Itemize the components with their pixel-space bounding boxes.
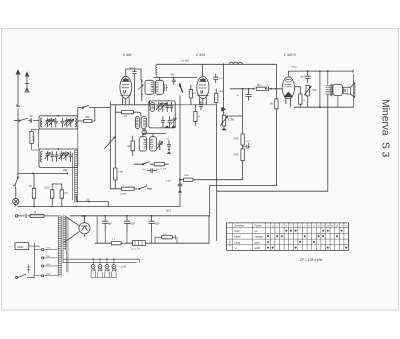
resistor R 0,1M: [51, 190, 54, 198]
osc padder resistor: [131, 141, 134, 151]
resistor R550: [84, 119, 92, 122]
svg-text:Lang: Lang: [234, 240, 240, 244]
grid capacitor C14: [133, 69, 137, 104]
svg-text:5,2nF: 5,2nF: [130, 68, 136, 70]
svg-text:11: 11: [313, 226, 315, 228]
resistor R 10k: [184, 178, 194, 181]
table column numbers: [267, 225, 348, 228]
IF1 coil primary: [145, 80, 154, 94]
wire AF feed L3: [217, 96, 328, 192]
speaker cone: [347, 83, 354, 98]
osc lower cap C21: [168, 117, 171, 128]
wire AF line A: [192, 179, 242, 181]
svg-text:Farbe: Farbe: [254, 224, 262, 228]
svg-text:E 442 N: E 442 N: [284, 53, 297, 57]
tone resistor R 270k: [306, 85, 309, 96]
capacitor C29 stub: [178, 180, 182, 191]
junction dot screen: [276, 88, 278, 90]
filter choke: [133, 241, 146, 246]
table selector dots: [267, 230, 347, 249]
trimmer C12: [63, 152, 68, 161]
heater lamp 2 legs: [98, 268, 103, 277]
diode D1: [222, 107, 226, 111]
IF1 padder cap: [165, 84, 168, 91]
wire AVC vertical 1: [109, 102, 111, 189]
junction dot B2: [126, 215, 128, 217]
svg-text:grün: grün: [254, 240, 260, 244]
osc coil A: [139, 137, 147, 151]
svg-text:0,1M: 0,1M: [44, 188, 49, 190]
switch S3: [142, 164, 143, 165]
output transformer T1 secondary: [333, 84, 343, 95]
coil L1: [41, 118, 42, 127]
heater lamp 3 legs: [105, 268, 110, 277]
svg-text:8μF: 8μF: [108, 224, 113, 226]
junction dot box2: [57, 148, 59, 150]
wire psu drop1: [105, 231, 151, 243]
band switch enclosure right edge: [179, 96, 181, 207]
capacitor C13: [69, 152, 72, 162]
tap 200v: [42, 265, 44, 267]
wire 184 sub-rail: [52, 183, 62, 185]
wire IF1 to V2 grid: [154, 77, 197, 79]
junction dot A: [216, 179, 218, 181]
capacitor C24: [214, 74, 218, 83]
mains tick: [25, 214, 26, 218]
switch S5: [179, 84, 180, 85]
coupling coil upper left: [135, 117, 139, 129]
svg-text:0,5M: 0,5M: [233, 138, 238, 141]
osc coil L5: [150, 102, 154, 111]
electrolytic C30 8uF: [102, 216, 108, 232]
wire R6M down: [275, 109, 277, 186]
coil L3: [41, 152, 42, 162]
osc lower cap C20: [161, 117, 164, 128]
antenna 2 lead: [25, 76, 29, 92]
junction dot chain: [248, 146, 250, 148]
svg-text:17V: 17V: [64, 193, 69, 195]
junction dot grid V3 l: [253, 88, 255, 90]
wire drop x223.6: [223, 64, 225, 104]
selector bus: [29, 243, 40, 278]
volume pot R 0,15M: [222, 115, 225, 126]
resistor R 50k: [256, 87, 265, 90]
svg-text:E 446: E 446: [123, 53, 132, 57]
coil L4 core line: [72, 153, 74, 200]
trimmer C7: [68, 118, 73, 127]
B+ rail: [70, 215, 210, 217]
capacitor C15 at 500: [172, 78, 175, 85]
svg-text:Bd.V: Bd.V: [166, 209, 172, 212]
junction dot AVC left: [32, 173, 34, 175]
svg-text:1: 1: [267, 226, 268, 228]
svg-text:0,1: 0,1: [19, 220, 22, 222]
wire callout vertical: [216, 180, 218, 241]
switch S1a: [19, 120, 20, 121]
svg-text:0,1μF: 0,1μF: [166, 180, 172, 182]
svg-text:E 446: E 446: [196, 53, 205, 57]
svg-text:Mittel: Mittel: [234, 235, 241, 239]
mains box 220v: [15, 243, 29, 250]
svg-text:0,5M: 0,5M: [233, 154, 238, 157]
resistor R 0,3: [189, 90, 192, 99]
ground bus wire: [18, 205, 180, 207]
heater rail 1: [63, 259, 140, 262]
osc cap C19: [170, 102, 173, 112]
svg-text:0,1MΩ: 0,1MΩ: [120, 193, 127, 195]
svg-text:270k: 270k: [311, 90, 318, 92]
junction dot chain top: [242, 88, 244, 90]
junction dot 500: [173, 77, 175, 79]
junction dot grid V3 r: [270, 88, 272, 90]
osc coil B: [150, 137, 157, 151]
svg-text:1,5M: 1,5M: [218, 91, 223, 93]
wire mixer mid: [149, 101, 151, 105]
IF1 dots: [141, 80, 143, 82]
junction dot rect: [84, 215, 86, 217]
svg-text:2x3: 2x3: [162, 233, 167, 235]
junction dot B1: [104, 215, 106, 217]
ground mark mains: [27, 265, 30, 273]
svg-text:10kΩ: 10kΩ: [184, 175, 190, 177]
resistor R 0,25: [30, 131, 33, 143]
IF1 coil secondary: [155, 80, 163, 94]
cathode resistor R 1k: [299, 94, 302, 104]
mains switch S7: [16, 276, 18, 278]
svg-text:S 3: S 3: [380, 142, 391, 158]
junction dot plate c: [327, 70, 329, 72]
wire R550 right: [92, 108, 95, 121]
oscillator box outline: [149, 101, 175, 128]
variable coupling arrow: [105, 137, 116, 149]
tube V2 getter: [200, 79, 206, 82]
ground rail PSU: [95, 216, 209, 243]
electrolytic C32 50uF: [149, 216, 155, 232]
trimmer C3: [49, 118, 54, 127]
dial lamp: [13, 198, 19, 204]
coupling coil on grid wire: [156, 65, 157, 78]
junction dot c27: [248, 88, 250, 90]
resistor R 1,5M avc: [114, 168, 117, 180]
junction dot box1: [57, 115, 59, 117]
wire band switch left edge: [114, 105, 116, 189]
svg-text:20·7: 20·7: [245, 141, 251, 143]
wire box1 bottom to R025: [32, 129, 78, 149]
mains terminal: [15, 215, 17, 217]
svg-text:240 v: 240 v: [45, 273, 52, 276]
svg-text:50 k: 50 k: [257, 84, 262, 87]
heater lamp 1: [91, 265, 95, 269]
wire left col to lamp: [15, 188, 17, 198]
junction dot AVC right: [66, 173, 68, 175]
plate wire V3: [288, 70, 353, 73]
osc ground triangle 2: [172, 126, 176, 128]
tube V2 E446 envelope: [197, 77, 209, 99]
transformer secondary winding: [63, 216, 66, 250]
wire AVC long vertical: [216, 105, 218, 180]
wire box1 to R550: [78, 120, 84, 122]
svg-text:weiß: weiß: [254, 246, 260, 250]
junction dot lamp feed: [88, 201, 90, 203]
trimmer C11: [59, 152, 64, 161]
heater lamp 1 legs: [91, 268, 96, 277]
tube V3 cathode cone: [284, 92, 292, 97]
svg-text:50μF: 50μF: [154, 224, 160, 226]
series capacitor C1: [30, 119, 32, 122]
resistor R 2k switch: [154, 163, 164, 166]
capacitor C5: [61, 118, 64, 127]
wire sw to edge: [148, 188, 152, 190]
tap 150v: [42, 257, 44, 259]
junction dot choke left: [223, 63, 225, 65]
wire heater row top: [110, 104, 149, 106]
capacitor C4: [54, 118, 57, 127]
heater rail 2: [63, 262, 137, 264]
svg-text:28ma: 28ma: [290, 67, 297, 69]
resistor R 3k: [194, 111, 197, 121]
wire antenna to band filter: [14, 120, 39, 122]
svg-text:Wellen: Wellen: [230, 239, 232, 246]
junction dot B3: [151, 215, 153, 217]
transformer core lines: [67, 218, 68, 272]
wire grid V3: [230, 88, 284, 90]
trimmer C8: [45, 152, 50, 161]
resistor R 0,1MΩ: [121, 187, 134, 190]
osc trimmer B: [157, 141, 162, 151]
svg-text:rot: rot: [254, 229, 257, 233]
tube V2 pins: [200, 98, 207, 105]
tube V1 E446 envelope: [120, 76, 132, 98]
IF1 feed wire: [141, 80, 143, 102]
junction dot osc: [166, 103, 168, 105]
tube V3 top cap lead: [287, 71, 289, 77]
svg-text:6M: 6M: [128, 146, 131, 148]
resistor R 2k mid: [122, 111, 134, 114]
tube V3 grids: [285, 84, 292, 87]
resistor R 0,5M b: [241, 149, 244, 161]
tube V1 top cap lead: [126, 69, 141, 76]
coupling coil upper right: [141, 117, 146, 129]
svg-text:orange: orange: [254, 235, 263, 239]
tube V1 getter: [123, 79, 129, 82]
transformer anode lead 2: [65, 232, 79, 242]
capacitor C22: [147, 169, 157, 173]
junction dot 01uF: [179, 179, 181, 181]
osc lower trimmer: [171, 117, 176, 126]
coupling coil lower loop: [142, 130, 146, 135]
ground triangle pot: [222, 126, 226, 130]
antenna 1 arrow: [16, 70, 20, 75]
rectifier tube 505: [79, 223, 90, 234]
svg-text:40μF: 40μF: [130, 223, 136, 226]
svg-text:Minerva: Minerva: [380, 99, 391, 136]
coil L2: [75, 118, 76, 127]
volume pot arrow: [220, 116, 227, 125]
resistor R 6M: [275, 99, 278, 109]
osc cap 50: [167, 141, 170, 151]
wire B+ step: [210, 185, 277, 215]
antenna 2 arrow: [25, 72, 29, 77]
resistor R 2x3: [162, 236, 173, 239]
wire chain down: [242, 161, 244, 180]
svg-text:Schalter: Schalter: [234, 224, 244, 228]
osc cap C18: [166, 102, 169, 112]
osc cap ground triangle: [167, 152, 171, 154]
transformer anode lead: [66, 217, 79, 226]
heater lamp 4 legs: [112, 268, 117, 277]
tone capacitor C28: [305, 71, 311, 83]
capacitor C27 5000: [246, 89, 252, 101]
band filter box 2 outline: [39, 149, 78, 167]
wire R025 to box2: [32, 144, 39, 151]
junction ground bus dots: [33, 206, 35, 208]
wire AVC rail 200: [18, 172, 67, 174]
wire top of band switch: [78, 108, 110, 116]
heater rail left drop: [62, 250, 64, 263]
antenna 1 lead wire: [17, 74, 20, 173]
wire pot to chain: [228, 89, 243, 134]
resistor R 1,5M: [215, 93, 218, 102]
node cap C25: [243, 143, 249, 149]
resistor R psu: [111, 242, 121, 245]
output transformer T1 primary comb: [326, 85, 331, 96]
svg-text:Kurz: Kurz: [234, 229, 240, 233]
svg-text:⏚: ⏚: [234, 246, 237, 250]
wire screen drop: [275, 64, 277, 99]
switch table grid: [227, 223, 349, 251]
grid wire 0,1M top: [157, 63, 277, 65]
tube V1 pins: [123, 98, 130, 105]
svg-text:0,25: 0,25: [34, 135, 36, 140]
osc trimmer C16: [156, 102, 161, 111]
switch S6: [139, 188, 140, 189]
wire rail drop 97: [96, 216, 98, 243]
junction dot plate b: [319, 70, 321, 72]
heater lamp 3: [105, 265, 109, 269]
tube V2 top cap lead: [202, 64, 204, 76]
cathode bus: [294, 106, 354, 108]
svg-text:∼: ∼: [9, 245, 12, 249]
svg-text:505: 505: [81, 214, 86, 218]
capacitor C26: [267, 87, 269, 91]
tap 125v: [42, 249, 44, 251]
svg-text:≈ 0,5A: ≈ 0,5A: [120, 266, 127, 269]
wire lamp feed: [76, 195, 108, 206]
tap 240v: [42, 275, 44, 277]
IF1 trimmer arrow 1: [138, 85, 143, 90]
long-wave coil L4 winding: [75, 151, 78, 203]
svg-text:6M: 6M: [270, 104, 273, 106]
wire lamp to bus: [15, 205, 17, 207]
wire 2k to coil: [134, 112, 142, 116]
svg-text:ZF = 128,5 kHz: ZF = 128,5 kHz: [299, 258, 323, 262]
svg-text:0,15M: 0,15M: [228, 120, 234, 122]
plate wire y104: [150, 104, 217, 106]
osc ground triangle 1: [165, 126, 169, 128]
trimmer C2: [45, 118, 50, 127]
heater bottom bus: [91, 276, 117, 278]
tube V3 anode ellipse: [285, 79, 291, 82]
osc trimmer C17: [160, 102, 165, 111]
wire switch row: [134, 163, 169, 165]
svg-text:Curve 7Ω: Curve 7Ω: [131, 249, 141, 251]
wire IF1 top to grid wire: [159, 78, 161, 81]
output transformer core: [331, 84, 334, 96]
resistor R 50: [32, 188, 35, 198]
svg-text:200 v: 200 v: [45, 264, 52, 266]
wire tone down: [307, 96, 309, 107]
choke on screen wire: [229, 62, 243, 64]
osc coils top wire: [143, 134, 166, 137]
svg-text:0,1 MΩ: 0,1 MΩ: [181, 60, 189, 63]
svg-text:50 Γ: 50 Γ: [301, 77, 306, 79]
electrolytic C31 40uF: [124, 216, 130, 232]
junction dot fb bot: [319, 106, 321, 108]
transformer primary winding: [58, 216, 61, 277]
capacitor C23: [199, 102, 202, 110]
band filter box 1 outline: [39, 116, 78, 129]
ground triangle C29: [178, 190, 182, 192]
heater lamp 4: [112, 265, 116, 269]
resistor R 170: [60, 190, 63, 198]
svg-text:550: 550: [85, 116, 90, 119]
svg-text:125 v: 125 v: [46, 248, 52, 250]
svg-text:1,5M: 1,5M: [118, 172, 123, 174]
tube V3 pins: [286, 98, 291, 107]
trimmer C6: [64, 118, 69, 127]
fuse F1: [30, 214, 44, 217]
wire feedback vert: [319, 71, 321, 107]
switch S1b: [82, 107, 83, 108]
svg-text:220v: 220v: [17, 245, 24, 249]
junction dot plate a: [307, 70, 309, 72]
wire V1 to IF1: [140, 69, 142, 80]
svg-text:200: 200: [62, 169, 68, 172]
resistor R 0,5M a: [241, 134, 244, 145]
capacitor C10: [55, 152, 58, 162]
speaker voice coil: [343, 87, 347, 93]
osc cap ground dot: [168, 149, 170, 151]
svg-text:0,1μF: 0,1μF: [161, 168, 167, 170]
wire T1 leads: [328, 71, 354, 107]
switch S2 mains-left: [17, 177, 18, 178]
tube V3 E442N envelope: [282, 77, 294, 99]
capacitor C9: [51, 152, 54, 162]
wire mains: [18, 215, 58, 217]
switch S4 on edge: [179, 85, 180, 86]
heater lamp 2: [98, 265, 102, 269]
